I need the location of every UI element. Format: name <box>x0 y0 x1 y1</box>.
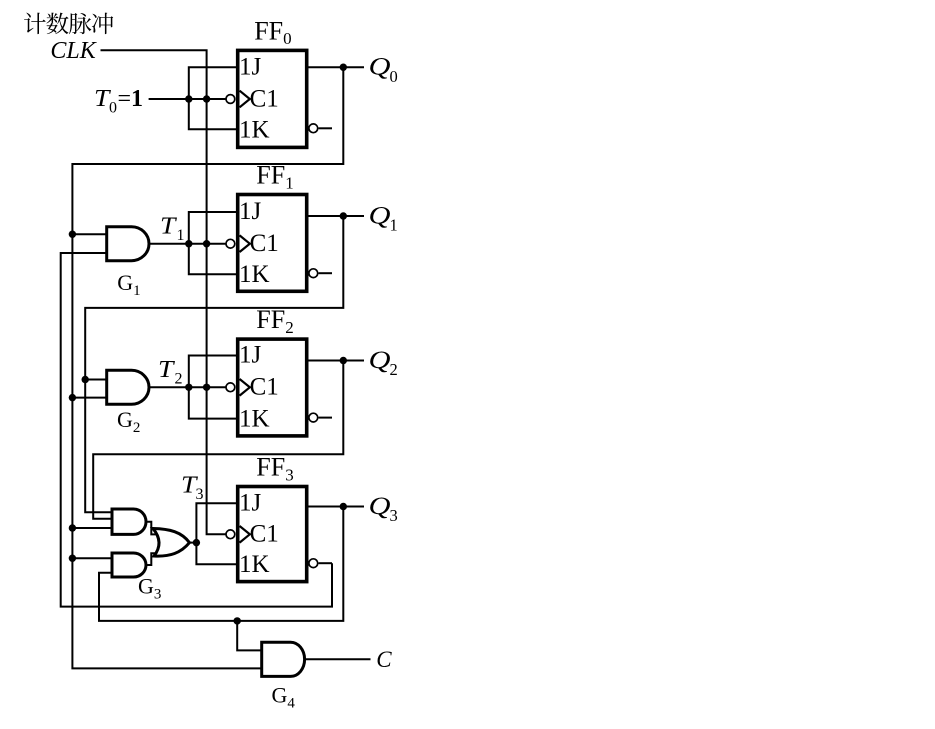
wire: Q-bar stub of FF1 <box>319 272 332 274</box>
junction: CLK trunk to FF2 C1 <box>203 384 210 391</box>
svg-text:G1: G1 <box>117 270 140 299</box>
svg-text:1: 1 <box>177 227 185 244</box>
svg-text:=: = <box>118 86 132 112</box>
output Q1 lead with node <box>307 215 364 217</box>
svg-text:1J: 1J <box>239 489 262 516</box>
svg-text:G2: G2 <box>117 407 140 436</box>
wire: G3 lower AND 1st input from Q0 rail <box>72 557 112 559</box>
junction: Q0 rail to G3 lower AND 1st input <box>69 555 76 562</box>
svg-text:G4: G4 <box>272 683 296 712</box>
wire: G2 output T2 to FF2 C-level node and clock bubble <box>150 386 226 388</box>
wire: Q2 feedback - down from Q2 node, left, down rail D into G3 upper AND <box>93 361 343 519</box>
wire: tap down to G4 upper input <box>237 621 261 651</box>
wire: J-K tie vertical with 1J / 1K leads of FF2 <box>189 356 238 419</box>
junction: Q3 line tap to G4 upper input <box>234 617 241 624</box>
wire: CLK from label, right then down the clock trunk to FF3 C1 <box>101 50 226 534</box>
svg-text:FF1: FF1 <box>256 161 293 193</box>
wire: J-K tie vertical with 1J / 1K leads of FF3 <box>196 503 237 564</box>
svg-text:Q: Q <box>369 53 391 81</box>
svg-text:C1: C1 <box>250 230 279 257</box>
svg-text:1J: 1J <box>239 53 262 80</box>
junction: T0 node on tie vertical <box>185 95 192 102</box>
svg-text:FF3: FF3 <box>256 453 293 485</box>
AND gate G1 <box>107 227 149 261</box>
wire: G1 upper input from Q0 rail <box>72 233 106 235</box>
junction: CLK trunk to FF0 C1 <box>203 95 210 102</box>
svg-text:C1: C1 <box>250 85 279 112</box>
clock bubble of FF3 <box>226 530 235 539</box>
svg-text:0: 0 <box>390 67 398 86</box>
junction: Q0 rail to G3 upper AND 3rd input <box>69 524 76 531</box>
svg-text:1J: 1J <box>239 198 262 225</box>
svg-text:1K: 1K <box>239 551 270 578</box>
wire: Q3-bar feedback - from FF3 bubble stub down, left along y=606.6, up rail A to G1 lower input <box>61 253 332 607</box>
svg-text:1K: 1K <box>239 406 270 433</box>
svg-text:FF2: FF2 <box>256 305 293 337</box>
label: 计数脉冲 (counting pulse) caption <box>24 13 113 35</box>
svg-text:C1: C1 <box>250 521 279 548</box>
inverted output bubble of FF0 <box>309 124 318 133</box>
wire: G3 upper AND output jog into OR <box>146 522 157 535</box>
inverted output bubble of FF1 <box>309 269 318 278</box>
svg-text:Q: Q <box>369 202 391 230</box>
output Q0 lead with node <box>307 66 364 68</box>
svg-text:T: T <box>158 356 175 383</box>
inverted output bubble of FF2 <box>309 413 318 422</box>
svg-text:FF0: FF0 <box>254 16 291 48</box>
junction: T2 node on tie vertical <box>185 384 192 391</box>
wire: G1 output T1 to FF1 C-level node and clock bubble <box>150 243 226 245</box>
svg-text:C1: C1 <box>250 374 279 401</box>
output Q3 lead with node <box>307 506 364 508</box>
wire: G2 upper input from Q1 rail <box>85 379 107 381</box>
wire: G2 lower input from Q0 rail <box>72 397 106 399</box>
svg-text:C: C <box>376 647 392 672</box>
AND gate G4 <box>262 642 305 676</box>
svg-text:0: 0 <box>109 99 117 116</box>
wire: Q-bar stub of FF3 <box>319 562 332 564</box>
svg-text:G3: G3 <box>138 574 161 603</box>
svg-text:3: 3 <box>390 506 398 525</box>
wire: G3 upper AND 3rd input from Q0 rail <box>72 527 112 529</box>
clock edge triangle of FF3 <box>240 526 250 543</box>
wire: OR output T3 to FF3 tie vertical <box>189 542 196 544</box>
wire: Q1 feedback - down from Q1 node, left, down rail C into G3 upper AND <box>85 216 343 512</box>
svg-text:2: 2 <box>175 371 183 388</box>
junction: T3 node on tie vertical <box>193 539 200 546</box>
svg-text:3: 3 <box>196 486 204 503</box>
svg-text:1J: 1J <box>239 342 262 369</box>
clock edge triangle of FF2 <box>240 379 250 396</box>
junction: T1 node on tie vertical <box>185 240 192 247</box>
wire: Q-bar stub of FF0 <box>319 127 332 129</box>
svg-text:Q: Q <box>369 492 391 520</box>
clock edge triangle of FF0 <box>240 91 250 108</box>
svg-text:T: T <box>160 212 177 239</box>
wire: Q3 feedback - down from Q3 node, left along y=620.9, up into G3 lower AND <box>99 507 343 621</box>
clock bubble of FF2 <box>226 383 235 392</box>
output Q2 lead with node <box>307 360 364 362</box>
flip-flop FF1 box <box>238 195 307 292</box>
wire: Q0 feedback - down from Q0 node, left, down left rail B to G4 lower input <box>72 67 343 668</box>
wire: J-K tie vertical with 1J / 1K leads of FF0 <box>189 67 238 129</box>
AND gate G3 lower (2-input) <box>112 553 146 577</box>
clock bubble of FF1 <box>226 239 235 248</box>
junction: Q0 rail to G1 upper input <box>69 231 76 238</box>
clock edge triangle of FF1 <box>240 235 250 252</box>
flip-flop FF3 box <box>238 487 307 582</box>
svg-text:Q: Q <box>369 346 391 374</box>
AND gate G3 upper (3-input) <box>112 509 146 534</box>
svg-text:2: 2 <box>390 360 398 379</box>
svg-text:1K: 1K <box>239 261 270 288</box>
junction: Q1 rail to G2 upper input <box>82 376 89 383</box>
OR gate of G3 <box>153 529 190 557</box>
flip-flop FF0 box <box>238 50 307 147</box>
svg-text:1K: 1K <box>239 116 270 143</box>
label: T0=1 <box>94 85 143 117</box>
wire: Q-bar stub of FF2 <box>319 417 332 419</box>
flip-flop FF2 box <box>238 339 307 436</box>
wire: G3 lower AND output jog into OR <box>146 553 160 565</box>
svg-text:1: 1 <box>390 216 398 235</box>
wire: J-K tie vertical with 1J / 1K leads of FF1 <box>189 212 238 274</box>
inverted output bubble of FF3 <box>309 559 318 568</box>
AND gate G2 <box>107 370 149 404</box>
junction: Q0 rail to G2 lower input <box>69 394 76 401</box>
wire: G4 output to C <box>305 658 371 660</box>
wire: T0 to FF0 C-level node and clock bubble <box>149 98 226 100</box>
junction: CLK trunk to FF1 C1 <box>203 240 210 247</box>
svg-text:CLK: CLK <box>50 38 97 64</box>
svg-text:1: 1 <box>131 86 143 112</box>
clock bubble of FF0 <box>226 95 235 104</box>
